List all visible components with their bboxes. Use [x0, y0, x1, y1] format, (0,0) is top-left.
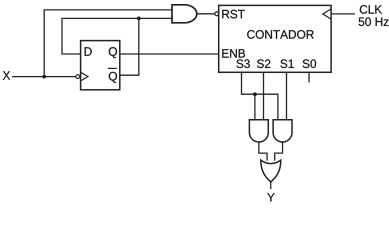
label Y [267, 193, 274, 201]
counter U3 [219, 5, 331, 72]
wire S0 stub [308, 72, 310, 82]
label X [3, 71, 10, 79]
label CLK [360, 5, 382, 14]
wire Y output [270, 182, 272, 189]
junction node S3 branch [253, 92, 257, 96]
wire CLK [331, 13, 355, 15]
RST inversion bubble [215, 12, 219, 16]
wire Q to ENB [120, 53, 219, 55]
AND gate U5 [273, 120, 292, 142]
wire S3 output [242, 72, 278, 120]
AND gate U2 [172, 5, 197, 23]
wire AND U5 output to OR [275, 142, 283, 161]
D flip-flop U1 [81, 41, 120, 90]
wire S3 branch to AND gate U4 [254, 94, 256, 120]
label 50 Hz [359, 17, 389, 26]
wire S1 output [286, 72, 288, 120]
junction node Qbar feedback [137, 17, 141, 21]
wire AND U4 output to OR [259, 142, 267, 161]
junction node X [42, 75, 46, 79]
wire Qbar to feedback riser [120, 18, 139, 75]
wire X input [12, 76, 76, 78]
OR gate U6 [261, 160, 281, 182]
wire AND output to RST [197, 13, 215, 15]
wire X to AND gate input A [44, 10, 172, 77]
wire Qbar feedback to D input and AND gate input B [62, 18, 172, 54]
AND gate U4 [249, 120, 268, 142]
clock inversion bubble [76, 75, 80, 79]
wire S2 output [263, 72, 265, 120]
